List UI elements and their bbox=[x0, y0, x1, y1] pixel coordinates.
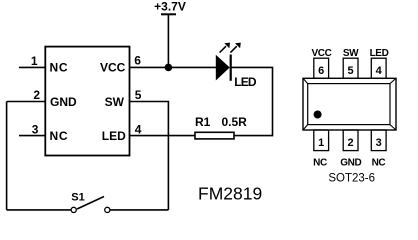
switch S1 blade bbox=[77, 197, 104, 210]
SOT23-6 pin 4 box bbox=[371, 58, 386, 78]
svg-text:3: 3 bbox=[376, 137, 382, 149]
svg-text:NC: NC bbox=[50, 60, 69, 74]
svg-text:4: 4 bbox=[376, 65, 383, 77]
svg-text:6: 6 bbox=[318, 65, 324, 77]
svg-text:SW: SW bbox=[343, 48, 359, 59]
svg-text:LED: LED bbox=[102, 129, 126, 143]
svg-text:4: 4 bbox=[135, 123, 142, 137]
svg-text:VCC: VCC bbox=[312, 48, 332, 59]
power rail bar bbox=[161, 13, 176, 15]
svg-text:0.5R: 0.5R bbox=[222, 115, 248, 129]
wire LED cathode to right rail bbox=[231, 67, 273, 135]
wire switch to SW vertical bbox=[110, 209, 168, 211]
svg-text:SW: SW bbox=[105, 95, 125, 109]
diode LED cathode bar bbox=[230, 55, 232, 81]
svg-text:6: 6 bbox=[134, 54, 141, 68]
svg-text:+3.7V: +3.7V bbox=[154, 0, 186, 14]
junction dot VCC node bbox=[165, 64, 173, 72]
SOT23-6 body inner bbox=[308, 84, 390, 125]
svg-text:R1: R1 bbox=[195, 115, 211, 129]
SOT23-6 pin 5 box bbox=[343, 58, 358, 78]
svg-text:VCC: VCC bbox=[100, 61, 126, 75]
wire VCC net: pin6 to LED anode bbox=[130, 66, 217, 68]
svg-text:2: 2 bbox=[348, 137, 354, 149]
svg-text:S1: S1 bbox=[71, 192, 84, 204]
wire SW net: pin5 right then down to switch bbox=[130, 102, 169, 210]
wire pin2 lead bbox=[7, 101, 46, 103]
svg-text:3: 3 bbox=[32, 123, 39, 137]
svg-text:SOT23-6: SOT23-6 bbox=[328, 173, 375, 185]
svg-text:GND: GND bbox=[50, 95, 77, 109]
wire bottom left to switch bbox=[7, 209, 72, 211]
SOT23-6 pin 6 box bbox=[314, 58, 329, 78]
diode LED D1 triangle bbox=[216, 56, 229, 79]
SOT23-6 body outer bbox=[303, 78, 396, 130]
LED emission arrow 2 bbox=[230, 43, 240, 53]
svg-text:GND: GND bbox=[340, 157, 361, 168]
SOT23-6 body bevel corners bbox=[303, 78, 396, 130]
svg-text:2: 2 bbox=[33, 88, 40, 102]
svg-text:NC: NC bbox=[313, 157, 327, 168]
svg-text:5: 5 bbox=[135, 88, 142, 102]
SOT23-6 pin1 marker dot bbox=[314, 111, 322, 119]
svg-text:LED: LED bbox=[370, 48, 389, 59]
switch S1 left contact bbox=[71, 207, 76, 212]
wire pin4 to R1 bbox=[130, 135, 196, 137]
resistor R1 body bbox=[195, 132, 234, 139]
wire pin1 stub bbox=[19, 66, 45, 68]
SOT23-6 pin 2 box bbox=[343, 130, 358, 151]
svg-text:NC: NC bbox=[372, 157, 386, 168]
svg-text:1: 1 bbox=[31, 54, 38, 68]
svg-text:LED: LED bbox=[234, 75, 257, 89]
wire GND net: left vertical bbox=[6, 102, 8, 210]
svg-text:1: 1 bbox=[318, 137, 324, 149]
wire pin3 stub bbox=[19, 135, 45, 137]
IC U1 FM2819 body bbox=[45, 47, 129, 156]
SOT23-6 pin 1 box bbox=[314, 130, 329, 151]
LED emission arrow 1 bbox=[220, 43, 230, 53]
svg-text:NC: NC bbox=[50, 129, 69, 143]
switch S1 right contact bbox=[105, 207, 110, 212]
wire +3.7V down to VCC net bbox=[167, 14, 169, 67]
SOT23-6 pin 3 box bbox=[371, 130, 386, 151]
svg-text:FM2819: FM2819 bbox=[198, 184, 262, 204]
svg-text:5: 5 bbox=[348, 65, 354, 77]
